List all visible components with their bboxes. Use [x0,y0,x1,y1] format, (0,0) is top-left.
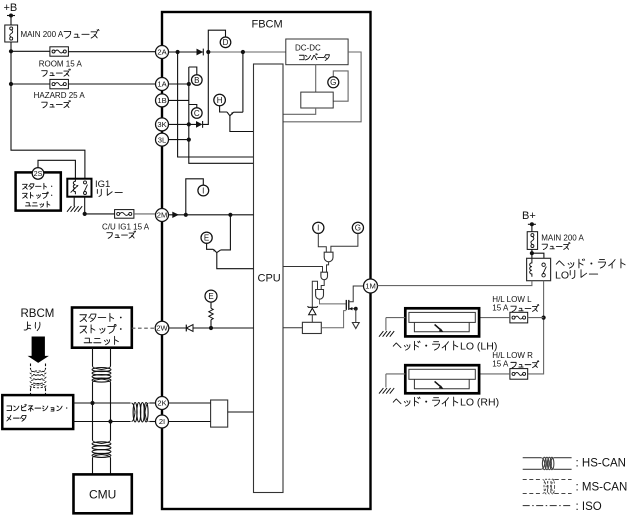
wire relay output down to headlight fuses [528,281,544,374]
junction on +B bus at HAZARD fuse [9,82,13,86]
box CMU [74,474,132,513]
wire 2A feed to DC-DC converter [208,51,286,53]
wire 3L into chain [169,139,189,141]
svg-text:MAIN 200 A: MAIN 200 A [541,234,584,243]
direction arrow after 2M [172,212,179,218]
box start-stop unit (upper-left) [16,172,61,210]
wire to ROOM fuse [11,50,50,52]
wire 1B into chain [169,99,189,101]
diode on 2W line (pointing left) [186,325,193,332]
svg-text:D: D [223,38,229,47]
ground headlight LH [379,331,394,337]
wire G to gate1 [331,233,358,252]
wire 2W row to CPU [169,327,254,329]
wire headlight RH to ground [386,373,405,375]
box start-stop unit (lower) [72,308,132,348]
svg-text:CPU: CPU [258,273,281,285]
wire DC-DC right loop to CPU [283,52,361,122]
wire ISO start-stop unit to 2W (dashed) [132,327,155,329]
svg-text:G: G [330,78,336,87]
wire MS-CAN twisted pair RBCM to combination meter [30,364,32,370]
junction feeding transistor H branch [241,50,245,54]
connector 2A [156,46,169,59]
svg-text:LO (LH): LO (LH) [460,341,497,353]
wire from 2A junction down to CPU [178,52,254,157]
wire 1M to relay coil [378,281,532,286]
lamp headlight LO (RH) [405,365,479,393]
svg-text:1B: 1B [157,96,166,105]
connector 1M [364,279,378,293]
svg-text:G: G [355,224,361,233]
svg-text:E: E [208,292,213,301]
svg-text:2I: 2I [159,417,165,426]
svg-text:DC-DC: DC-DC [295,44,321,53]
stub to pin B [189,67,197,75]
wire headlight LH to ground [386,317,405,319]
transistor E [207,243,214,249]
pin E (lower, via resistor) [205,290,217,302]
svg-text:3K: 3K [157,120,166,129]
svg-text:: MS-CAN: : MS-CAN [576,482,627,494]
gate U1 (AND) [324,252,333,262]
transistor Q1 MOSFET [345,300,347,310]
stub to pin I [186,179,204,215]
pin C [192,108,203,119]
pin I (gate input) [313,222,324,233]
ground arrow (open triangle) [352,323,359,329]
stub to pin D [208,30,225,52]
wire fuse to 2M [134,213,156,215]
wire +B down to MAIN fuse [10,16,12,26]
lamp headlight LO (LH) [405,308,479,336]
relay headlight LO [527,258,551,280]
legend MS-CAN line sample [523,479,543,481]
svg-text:ROOM 15 A: ROOM 15 A [39,60,83,69]
legend HS-CAN line sample [523,457,542,459]
pin B [192,75,203,86]
svg-text:1A: 1A [157,80,167,89]
pin H [214,94,226,106]
legend ISO line sample [523,505,572,507]
svg-text:B+: B+ [522,210,536,222]
diode on 2A line [197,49,204,56]
wire HAZARD fuse to 1A [68,83,155,85]
wire IG1 relay output to C/U IG1 fuse [85,197,115,214]
relay IG1 [67,179,91,197]
wire gate2 out to gate3 [321,280,324,290]
connector 1B [156,94,169,107]
wire transistor H to CPU [230,116,254,132]
wire MOSFET drain to 1M [349,286,364,302]
svg-text:2W: 2W [156,324,168,333]
svg-text:CMU: CMU [89,488,116,502]
wire fuse to relay [531,249,533,258]
wire HS-CAN twisted pair to 2K/2I [133,403,137,422]
svg-text:C/U IG1 15 A: C/U IG1 15 A [102,223,150,232]
wire fuse to headlight LH [479,317,510,319]
box FBCM (front body control module) [162,12,371,509]
wire to HAZARD fuse [11,83,50,85]
wire G loop to regulator [333,71,348,101]
box combination meter [2,395,73,429]
wire IG1 coil to ground [73,197,75,207]
fuse ROOM 15 A [50,47,69,56]
gate U2 [321,272,328,280]
wire gate3 out to MOSFET gate [320,299,346,304]
connector 2I [156,415,169,428]
wire gate1 out to gate2 [327,262,329,272]
svg-text:LO (RH): LO (RH) [460,397,499,409]
wire DC-DC to internal regulator [315,65,317,92]
wire HS-CAN pair down to CMU [92,442,111,446]
junction on +B bus at ROOM fuse [9,49,13,53]
fuse MAIN 200 A (left) [5,25,18,42]
connector 1A [156,78,169,91]
wire main bus below fuse [11,42,85,179]
wire 2K to block [169,402,211,404]
svg-text:C: C [194,109,200,118]
connector 3L [156,133,169,146]
svg-text:2K: 2K [157,399,166,408]
ground headlight RH [379,388,394,394]
wire gate3 input loop to zener [312,281,317,307]
svg-text:1M: 1M [365,282,376,291]
wire combination meter to CAN bus [73,402,130,404]
connector 2S [32,168,44,180]
wire CPU to driver box [283,327,302,329]
junction after diode (to D stub and 3K diode) [206,50,210,54]
box driver (below zener) [302,322,321,333]
svg-text:I: I [202,186,204,195]
box DC-DC converter [286,39,348,65]
svg-text:RBCM: RBCM [21,308,55,320]
junction on 2A wire [176,50,180,54]
wire I to gate1 [318,233,326,252]
wire MOSFET source to ground arrow [349,308,356,310]
wire 3K with diode into node [169,123,197,125]
wire from junction down to transistor H [242,52,244,112]
ground below IG1 relay [67,206,82,212]
fuse C/U IG1 15 A [115,210,134,219]
svg-text:I: I [317,224,319,233]
connector 2W [155,321,169,335]
wire chain 1A/1B/3K/3L vertical [189,67,254,163]
wire CPU to gate2 [283,267,323,273]
svg-text:HAZARD 25 A: HAZARD 25 A [34,91,86,100]
wire 2I to block [169,421,211,423]
wire driver box to MOSFET gate bottom [321,311,346,328]
stub to pin C [189,105,197,108]
connector block for 2K/2I [211,400,228,427]
fuse HAZARD 25 A [50,79,69,88]
fuse MAIN 200 A (right) [527,232,537,250]
wire HS-CAN pair start-stop down to junctions [92,348,94,366]
transistor H (emitter follower) [220,106,227,112]
svg-text:LO: LO [555,270,569,282]
pin D [220,37,231,48]
svg-text:IG1: IG1 [95,179,110,190]
svg-text:2A: 2A [157,48,167,57]
pin I (left) [198,185,209,196]
block CPU [254,64,284,493]
resistor above 2W line [210,320,212,328]
junction HS-CAN upper [90,401,94,405]
wire fuse to headlight RH [479,373,510,375]
wire regulator to CPU [283,108,316,114]
svg-text:E: E [204,234,209,243]
wire block to CPU [228,411,254,413]
svg-text:B: B [194,76,199,85]
wire transistor E to CPU [217,253,254,269]
svg-text:+B: +B [4,2,18,14]
wire 2M to CPU [169,214,254,216]
svg-text:2S: 2S [34,169,43,178]
wire ROOM fuse to 2A [68,51,155,53]
svg-text:: ISO: : ISO [576,501,602,513]
arrow from RBCM (thick) [28,337,49,363]
junction HS-CAN lower [108,419,112,423]
wire 1A into chain [169,83,189,85]
wire 2S to IG1 relay coil [38,160,75,178]
svg-text:MAIN 200 A: MAIN 200 A [21,30,64,39]
pin G (gate input) [352,222,363,233]
connector 2K [156,397,169,410]
gate U3 [316,290,324,300]
zener diode [308,306,318,307]
svg-text:H: H [217,96,223,105]
pin E (upper) [201,232,212,243]
connector 3K [156,118,169,131]
box internal regulator [301,92,333,108]
svg-text:: HS-CAN: : HS-CAN [576,458,626,470]
svg-text:15 A: 15 A [492,360,509,369]
svg-text:3L: 3L [158,135,166,144]
svg-text:2M: 2M [157,211,168,220]
svg-text:FBCM: FBCM [252,19,283,31]
connector 2M [156,209,169,222]
svg-text:15 A: 15 A [492,304,509,313]
